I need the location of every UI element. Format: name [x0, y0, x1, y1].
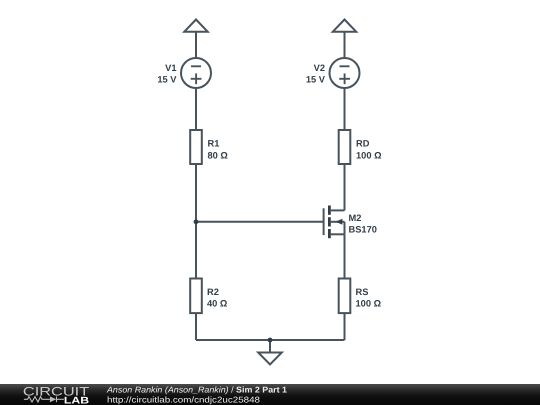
MOSFET M2 source lead — [331, 233, 345, 235]
MOSFET M2 body-source connector — [344, 222, 346, 235]
svg-text:Anson Rankin (Anson_Rankin) /: Anson Rankin (Anson_Rankin) / Sim 2 Part… — [106, 385, 287, 395]
svg-text:80 Ω: 80 Ω — [208, 150, 229, 160]
wire gate net from node A to M2 gate — [196, 221, 324, 223]
wire R2 bottom to bottom rail — [195, 313, 197, 340]
svg-text:R1: R1 — [208, 139, 220, 149]
svg-text:100 Ω: 100 Ω — [356, 299, 382, 309]
voltage source V2 circle — [330, 58, 360, 88]
power flag (up triangle) at V1 — [184, 20, 207, 32]
MOSFET M2 body arrow — [336, 219, 343, 225]
power flag (up triangle) at V2 — [333, 20, 356, 32]
svg-text:R2: R2 — [207, 287, 219, 297]
resistor RD body — [339, 130, 351, 164]
resistor R2 body — [190, 279, 202, 314]
wire RS bottom to bottom rail — [344, 313, 346, 340]
ground stub wire — [269, 340, 271, 353]
svg-text:BS170: BS170 — [349, 224, 377, 234]
svg-text:M2: M2 — [349, 213, 362, 223]
svg-text:RD: RD — [356, 139, 370, 149]
voltage source V1 circle — [181, 58, 211, 88]
MOSFET M2 gate bar — [323, 208, 325, 235]
svg-text:LAB: LAB — [64, 395, 89, 405]
wire V1 bottom to R1 top — [195, 88, 197, 130]
MOSFET M2 channel bar middle — [328, 217, 331, 226]
svg-text:V2: V2 — [314, 63, 325, 73]
MOSFET M2 channel bar bottom — [328, 229, 331, 238]
svg-text:40 Ω: 40 Ω — [207, 299, 228, 309]
CircuitLab logo resistor zigzag — [24, 397, 50, 402]
wire M2 source to RS top — [344, 234, 346, 278]
svg-text:15 V: 15 V — [157, 74, 177, 84]
wire V1 flag to V1 top — [195, 32, 197, 58]
MOSFET M2 drain lead — [331, 209, 345, 211]
wire V2 bottom to RD top — [344, 88, 346, 130]
svg-text:RS: RS — [356, 287, 369, 297]
junction node A (gate tap on left branch) — [194, 219, 199, 224]
CircuitLab logo diode — [50, 396, 56, 402]
V2 plus sign — [339, 78, 350, 80]
V1 minus sign — [191, 65, 201, 67]
bottom rail wire — [196, 339, 345, 341]
wire V2 flag to V2 top — [344, 32, 346, 58]
MOSFET M2 channel bar top — [328, 206, 331, 215]
svg-text:15 V: 15 V — [306, 74, 326, 84]
resistor R1 body — [190, 130, 202, 164]
svg-text:http://circuitlab.com/cndjc2uc: http://circuitlab.com/cndjc2uc25848 — [107, 395, 260, 405]
ground symbol triangle — [258, 353, 282, 365]
wire RD bottom to M2 drain — [344, 164, 346, 210]
MOSFET M2 body lead — [331, 221, 345, 223]
resistor RS body — [339, 279, 351, 314]
junction node at ground — [268, 338, 273, 343]
svg-text:V1: V1 — [165, 63, 176, 73]
V1 plus sign — [191, 78, 202, 80]
wire R1 bottom to R2 top — [195, 164, 197, 279]
V2 minus sign — [340, 65, 350, 67]
svg-text:100 Ω: 100 Ω — [356, 150, 382, 160]
